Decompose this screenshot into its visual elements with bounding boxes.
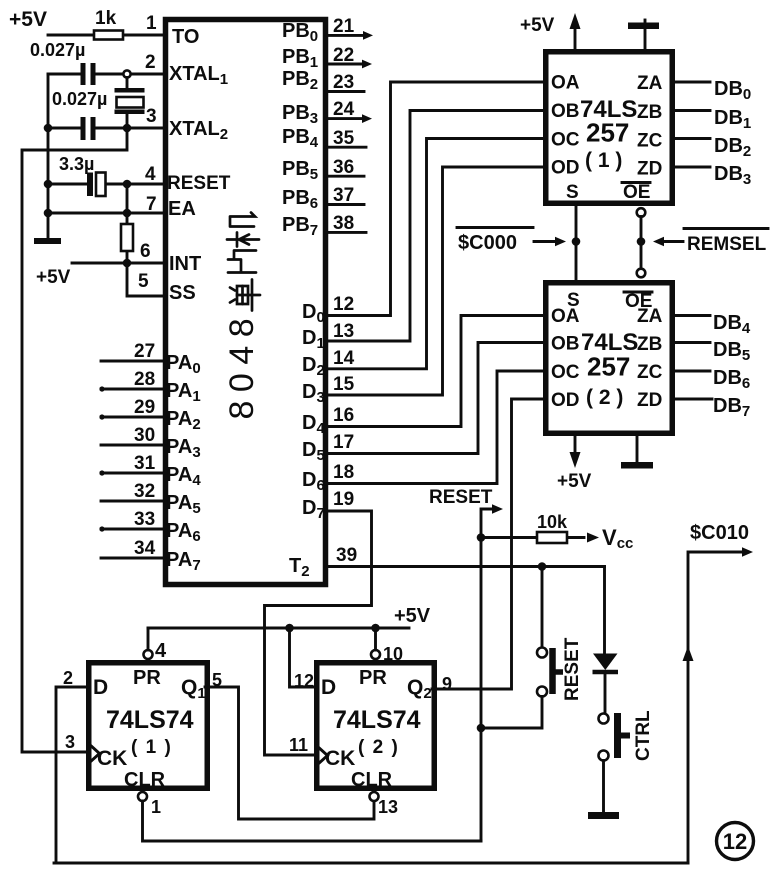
svg-text:OA: OA — [551, 306, 580, 327]
wire PA3 — [101, 444, 165, 447]
+5V arrow below U3 — [574, 434, 577, 453]
svg-text:28: 28 — [134, 369, 155, 390]
svg-text:2: 2 — [63, 668, 73, 688]
wire PB2 — [326, 90, 364, 93]
wire PA7 — [101, 557, 165, 560]
svg-text:OE: OE — [623, 182, 650, 203]
wire T2 corner down to diode — [603, 567, 606, 714]
8048 left pin name labels — [166, 26, 231, 574]
svg-text:TO: TO — [172, 26, 199, 48]
8048 chip rotated name text — [223, 213, 261, 420]
svg-text:EA: EA — [168, 198, 196, 220]
svg-text:OB: OB — [551, 334, 580, 355]
arrow up on $C010 wire — [683, 646, 694, 661]
svg-text:16: 16 — [333, 405, 354, 426]
ground above U2 — [644, 20, 647, 50]
svg-text:OB: OB — [551, 101, 580, 122]
op-amp U2 74LS257 (1) box — [546, 52, 673, 204]
wire ZC to DB6 — [673, 370, 710, 373]
wire ZD to DB3 — [673, 166, 710, 169]
arrow REMSEL into OE — [663, 240, 683, 243]
8048 right pin name labels — [282, 20, 325, 580]
wire PB5 — [326, 175, 364, 178]
svg-text:+5V: +5V — [557, 471, 592, 492]
svg-text:2: 2 — [145, 52, 156, 73]
wire T2 to reset button — [541, 567, 544, 648]
wire pin2 XTAL1 — [48, 73, 165, 76]
wire PA4 — [101, 472, 165, 475]
svg-text:27: 27 — [134, 341, 155, 362]
ground symbol left — [34, 238, 61, 244]
svg-text:8048: 8048 — [223, 310, 261, 420]
wire $C010 to bottom loop to FF1 D — [56, 687, 88, 861]
+5V rail above flip-flops — [148, 627, 409, 630]
U3 labels — [551, 290, 663, 411]
flip-flop FF2 74LS74 (2) box — [317, 663, 435, 789]
svg-text:29: 29 — [134, 397, 155, 418]
svg-text:31: 31 — [134, 453, 156, 474]
arrow $C000 into S — [534, 240, 556, 243]
svg-text:10k: 10k — [537, 512, 568, 532]
resistor R vertical — [126, 213, 129, 263]
svg-text:5: 5 — [138, 271, 149, 292]
svg-text:1k: 1k — [95, 8, 117, 29]
svg-text:34: 34 — [134, 538, 156, 559]
wire CTRL to ground — [602, 761, 605, 813]
U3 OE bubble — [637, 269, 646, 278]
svg-text:D: D — [321, 676, 336, 699]
svg-text:4: 4 — [155, 640, 167, 662]
wire rail to FF2 D — [290, 628, 319, 687]
wire PA5 — [101, 500, 165, 503]
figure number circled 12 — [717, 823, 754, 860]
svg-text:OD: OD — [551, 158, 580, 179]
arrow to Vcc — [587, 533, 599, 543]
FF2 labels — [321, 667, 432, 791]
FF1 pin numbers — [63, 640, 222, 817]
wire PB3 — [326, 117, 363, 120]
junction T2/reset-button — [538, 562, 547, 571]
svg-text:RESET: RESET — [562, 637, 583, 701]
svg-text:38: 38 — [333, 213, 354, 234]
svg-text:ZC: ZC — [637, 131, 663, 152]
svg-text:XTAL1: XTAL1 — [169, 63, 228, 88]
wire D3 to U2 OD — [326, 167, 545, 395]
node XTAL1 open circle — [123, 70, 130, 77]
diode D1 — [593, 654, 619, 673]
svg-text:( 1 ): ( 1 ) — [131, 737, 172, 758]
svg-text:CK: CK — [97, 747, 127, 770]
wire Q2 to U3 OD — [432, 399, 545, 689]
U2 OE bubble — [637, 208, 646, 217]
pushbutton RESET — [537, 648, 563, 697]
wire PB6 — [326, 203, 364, 206]
svg-text:ZD: ZD — [637, 390, 662, 411]
svg-text:6: 6 — [140, 241, 151, 262]
svg-text:10: 10 — [383, 644, 403, 664]
op-amp U1 8048 microcontroller box — [166, 20, 326, 585]
svg-text:( 2 ): ( 2 ) — [358, 737, 399, 758]
svg-text:13: 13 — [333, 321, 354, 342]
svg-text:$C010: $C010 — [690, 522, 749, 544]
FF1 CLR bubble and wire to reset line — [138, 792, 147, 801]
8048 right pin numbers — [333, 16, 357, 566]
svg-text:RESET: RESET — [167, 173, 231, 194]
svg-text:ZB: ZB — [637, 334, 662, 355]
svg-text:17: 17 — [333, 432, 354, 453]
svg-text:OC: OC — [551, 362, 580, 383]
wire D0 to U2 OA — [326, 82, 545, 316]
wire to 10k — [481, 536, 584, 539]
svg-text:257: 257 — [586, 118, 629, 148]
resistor R 1k — [94, 31, 123, 40]
svg-text:XTAL2: XTAL2 — [169, 118, 228, 143]
wire PB1 — [326, 63, 363, 66]
svg-text:32: 32 — [134, 481, 155, 502]
wire ZA to DB4 — [673, 314, 710, 317]
svg-text:4: 4 — [145, 164, 156, 185]
svg-text:30: 30 — [134, 425, 155, 446]
+5V arrow above U2 — [574, 26, 577, 50]
svg-text:+5V: +5V — [36, 267, 71, 288]
wire pin7 EA — [48, 212, 165, 215]
svg-text:21: 21 — [333, 16, 355, 37]
svg-text:CLR: CLR — [351, 769, 393, 791]
svg-text:15: 15 — [333, 374, 355, 395]
FF1 PR bubble and wire — [144, 650, 153, 659]
wire PA0 — [101, 360, 165, 363]
svg-text:INT: INT — [169, 253, 201, 275]
svg-text:SS: SS — [169, 282, 196, 304]
wire ZA to DB0 — [673, 81, 710, 84]
svg-text:REMSEL: REMSEL — [687, 234, 767, 255]
svg-text:0.027µ: 0.027µ — [30, 40, 85, 60]
wire PB7 — [326, 231, 366, 234]
svg-text:1: 1 — [151, 797, 161, 817]
svg-text:+5V: +5V — [394, 605, 431, 627]
svg-text:OC: OC — [551, 130, 580, 151]
FF2 PR bubble and wire — [371, 650, 380, 659]
svg-text:33: 33 — [134, 509, 155, 530]
svg-text:74LS74: 74LS74 — [106, 706, 194, 734]
FF2 CLR bubble — [370, 792, 379, 801]
wire reset button bottom — [481, 697, 542, 729]
svg-text:37: 37 — [333, 185, 354, 206]
crystal Y1 — [115, 78, 145, 129]
svg-text:74LS74: 74LS74 — [333, 706, 421, 734]
wire D5 to U3 OB — [326, 343, 545, 454]
svg-text:CLR: CLR — [124, 769, 166, 791]
wire PA2 — [101, 416, 165, 419]
svg-text:OD: OD — [551, 390, 580, 411]
U3 OE overline — [624, 291, 652, 294]
wire PA1 — [101, 388, 165, 391]
wire D7 to FF2 CK — [265, 511, 372, 755]
FF1 CK triangle — [89, 744, 100, 763]
ground below U3 — [636, 434, 639, 462]
svg-text:39: 39 — [336, 545, 357, 566]
wire pin1 TO — [48, 34, 165, 37]
resistor R 10k — [537, 532, 567, 543]
svg-text:+5V: +5V — [520, 15, 555, 36]
capacitor C1 0.027u — [81, 63, 96, 85]
junction dots left — [44, 124, 53, 133]
svg-text:1: 1 — [146, 13, 157, 34]
svg-text:PR: PR — [359, 667, 387, 689]
svg-text:OA: OA — [551, 73, 580, 94]
svg-text:+5V: +5V — [9, 8, 47, 31]
svg-text:5: 5 — [212, 670, 222, 690]
svg-text:S: S — [566, 182, 579, 203]
wire U2 OE down — [640, 217, 643, 270]
wire ZD to DB7 — [673, 398, 712, 401]
wire pin5 SS — [127, 263, 165, 296]
svg-text:( 1 ): ( 1 ) — [585, 149, 622, 172]
pushbutton CTRL — [599, 713, 631, 761]
wire PB4 — [326, 146, 366, 149]
wire ZB to DB1 — [673, 109, 710, 112]
wire crystal to CK1 long run — [22, 128, 127, 752]
svg-text:RESET: RESET — [429, 487, 493, 508]
svg-text:3: 3 — [146, 106, 157, 127]
svg-text:13: 13 — [378, 797, 398, 817]
svg-text:3.3µ: 3.3µ — [59, 154, 94, 174]
capacitor C3 3.3u electrolytic — [87, 173, 106, 197]
wire D6 to U3 OC — [326, 371, 545, 484]
wire PA6 — [101, 528, 165, 531]
svg-text:CK: CK — [325, 747, 355, 770]
svg-text:ZA: ZA — [637, 73, 663, 94]
wire PB0 — [326, 34, 364, 37]
ground rail left — [47, 74, 50, 238]
FF2 CK triangle — [317, 746, 328, 765]
svg-text:19: 19 — [333, 489, 354, 510]
svg-text:14: 14 — [333, 348, 355, 369]
wire Q1 to FF2 CLR — [205, 687, 374, 819]
wire ZC to DB2 — [673, 137, 710, 140]
wire pin4 RESET — [48, 183, 165, 186]
svg-text:24: 24 — [333, 99, 355, 120]
svg-text:$C000: $C000 — [458, 232, 517, 254]
svg-text:0.027µ: 0.027µ — [52, 89, 107, 109]
svg-text:ZB: ZB — [637, 102, 662, 123]
svg-text:12: 12 — [294, 671, 314, 691]
svg-text:11: 11 — [289, 735, 308, 755]
U2 labels — [551, 73, 663, 204]
wire RESET vertical with arrow — [481, 509, 494, 841]
wire pin3 XTAL2 — [48, 127, 165, 130]
op-amp U3 74LS257 (2) box — [546, 283, 673, 434]
svg-text:12: 12 — [333, 294, 354, 315]
svg-text:12: 12 — [723, 829, 747, 854]
FF2 pin numbers — [289, 644, 452, 817]
svg-text:ZA: ZA — [637, 306, 663, 327]
svg-text:ZC: ZC — [637, 362, 663, 383]
svg-text:( 2 ): ( 2 ) — [586, 386, 623, 409]
wire ZB to DB5 — [673, 341, 710, 344]
wire D2 to U2 OC — [326, 139, 545, 369]
svg-text:257: 257 — [587, 352, 630, 382]
svg-text:CTRL: CTRL — [633, 710, 654, 761]
svg-text:9: 9 — [442, 674, 452, 694]
wire pin4 to pin7 link — [126, 184, 129, 213]
svg-text:PR: PR — [133, 667, 161, 689]
flip-flop FF1 74LS74 (1) box — [89, 663, 208, 789]
svg-text:18: 18 — [333, 462, 354, 483]
wire pin6 INT — [72, 262, 165, 265]
svg-text:3: 3 — [65, 732, 75, 752]
wire T2 row — [326, 565, 605, 568]
svg-text:D: D — [93, 676, 108, 699]
wire U2 S down to U3 S — [575, 203, 578, 282]
capacitor C2 0.027u — [81, 117, 96, 140]
svg-text:ZD: ZD — [637, 159, 662, 180]
8048 left pin numbers — [134, 13, 157, 559]
wire D4 to U3 OA — [326, 316, 545, 427]
svg-text:23: 23 — [333, 72, 354, 93]
ground below CTRL — [588, 812, 619, 819]
FF1 labels — [93, 667, 206, 791]
wire D1 to U2 OB — [326, 111, 545, 342]
U2 OE overline — [622, 181, 650, 184]
